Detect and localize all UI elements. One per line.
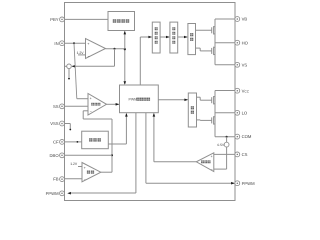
svg-text:SS: SS	[53, 104, 59, 109]
svg-text:COM: COM	[242, 134, 252, 139]
svg-text:LO: LO	[242, 110, 248, 115]
svg-text:CS: CS	[242, 152, 248, 157]
svg-text:DBO: DBO	[50, 153, 60, 158]
svg-text:1.2V: 1.2V	[70, 162, 78, 166]
svg-text:CF: CF	[53, 140, 59, 145]
svg-text:VSS: VSS	[50, 121, 59, 126]
svg-text:+: +	[84, 166, 86, 170]
svg-text:+: +	[90, 96, 92, 100]
svg-text:FB: FB	[53, 177, 59, 182]
svg-text:0.5V: 0.5V	[217, 143, 225, 147]
svg-text:PPWM: PPWM	[242, 181, 256, 186]
svg-text:−: −	[84, 178, 86, 182]
svg-text:+: +	[211, 155, 213, 159]
svg-text:PBY: PBY	[50, 17, 59, 22]
svg-text:VB: VB	[242, 17, 248, 22]
svg-text:−: −	[90, 110, 92, 114]
svg-text:PWM: PWM	[129, 98, 138, 102]
svg-text:−: −	[211, 167, 213, 171]
svg-text:VS: VS	[242, 62, 248, 67]
svg-text:PPWM: PPWM	[46, 191, 60, 196]
svg-text:IN: IN	[54, 41, 58, 46]
svg-text:VCC: VCC	[242, 88, 250, 93]
svg-text:HO: HO	[242, 40, 249, 45]
